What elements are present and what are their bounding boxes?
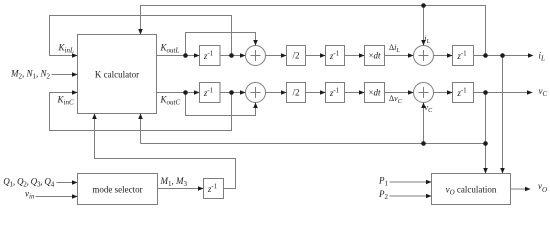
wire iL down to vO calculation: [502, 56, 504, 174]
svg-text:vO calculation: vO calculation: [446, 185, 497, 197]
wire /2L to z2L: [306, 55, 326, 57]
svg-text:iL: iL: [424, 34, 430, 45]
multiplier xdt C box: [365, 83, 385, 103]
summer S1L: [246, 46, 266, 66]
arrowhead vC output: [527, 90, 533, 95]
arrowhead P1 into vO calculation: [426, 180, 432, 185]
svg-text:z-1: z-1: [329, 50, 340, 62]
svg-text:Q1, Q2, Q3, Q4: Q1, Q2, Q3, Q4: [3, 177, 54, 189]
summer S1C: [246, 83, 266, 103]
svg-text:KinC: KinC: [57, 95, 74, 107]
svg-text:ΔvC: ΔvC: [389, 94, 403, 105]
svg-text:KinL: KinL: [58, 43, 74, 55]
junction dot after z3L up: [483, 53, 488, 58]
wire S1C bottom tap: [186, 93, 256, 116]
svg-text:P1: P1: [378, 176, 389, 188]
wire KoutL to z1L: [157, 55, 200, 57]
junction dot line A at S2L branch: [421, 3, 426, 8]
multiplier xdt L box: [365, 46, 385, 66]
wire z1C to S1C: [220, 92, 246, 94]
svg-text:z-1: z-1: [203, 50, 214, 62]
delay z2L box: [326, 46, 345, 66]
wire KinL feedback line B: [50, 16, 232, 56]
divider /2 L box: [287, 46, 306, 66]
arrowhead vC into vO calculation: [483, 168, 488, 174]
arrowhead S1L top: [253, 40, 258, 46]
junction dot after z1C: [229, 90, 234, 95]
junction dot before z1L: [183, 53, 188, 58]
wire Q input: [57, 182, 78, 184]
block mode selector: [78, 174, 158, 205]
divider /2 C box: [287, 83, 306, 103]
svg-text:M2, N1, N2: M2, N1, N2: [10, 69, 51, 81]
delay z3C box: [453, 83, 474, 103]
svg-text:vC: vC: [425, 103, 434, 114]
arrowhead into S1C: [240, 90, 246, 95]
arrowhead vC line into K calculator bottom: [138, 114, 143, 120]
wire xdtC to S2C: [385, 92, 414, 94]
delay z2C box: [326, 83, 345, 103]
wire vC down to vO calculation: [485, 93, 487, 174]
arrowhead vO output: [525, 187, 531, 192]
svg-text:/2: /2: [292, 51, 299, 61]
arrowhead into z1L: [194, 53, 200, 58]
arrowhead P2 into vO calculation: [426, 194, 432, 199]
svg-text:×dt: ×dt: [368, 51, 381, 61]
wire iL feedback top line A: [141, 6, 486, 56]
arrowhead iL into S2L top: [421, 40, 426, 46]
block vO calculation: [432, 174, 511, 205]
wire z2L to xdtL: [345, 55, 365, 57]
wire vC branch into S2C: [423, 103, 425, 144]
summer S2C: [414, 83, 434, 103]
svg-text:M1, M3: M1, M3: [160, 176, 188, 188]
arrowhead into S1L: [240, 53, 246, 58]
arrowhead vin into mode selector: [72, 194, 78, 199]
delay z1C box: [200, 83, 221, 103]
arrowhead KinC into K calculator: [72, 90, 78, 95]
svg-text:KoutC: KoutC: [160, 95, 181, 107]
wire KinC feedback loop: [50, 93, 232, 131]
wire P1 input: [390, 181, 432, 183]
svg-text:ΔiL: ΔiL: [389, 43, 400, 54]
svg-text:vC: vC: [539, 86, 548, 98]
wire S2C to z3C: [434, 92, 453, 94]
junction dot vC line at S2C branch: [421, 141, 426, 146]
arrowhead into z2L: [320, 53, 326, 58]
svg-text:iL: iL: [539, 51, 546, 63]
arrowhead into xdtC: [359, 90, 365, 95]
wire z3L to iL output: [474, 55, 533, 57]
wire z1L to S1L: [220, 55, 246, 57]
arrowhead vC into S2C bottom: [421, 103, 426, 109]
arrowhead into /2L: [281, 53, 287, 58]
svg-text:z-1: z-1: [203, 87, 214, 99]
delay zM box: [204, 179, 224, 199]
arrowhead KinL into K calculator: [72, 53, 78, 58]
arrowhead into z3C: [447, 90, 453, 95]
wire zM feedback to K calculator: [95, 114, 236, 189]
arrowhead mode loop into K calculator bottom: [92, 114, 97, 120]
wire vO output: [511, 188, 531, 190]
svg-text:×dt: ×dt: [368, 88, 381, 98]
wire vin input: [36, 196, 78, 198]
wire vC bottom feedback line: [141, 114, 486, 144]
wire P2 input: [390, 195, 432, 197]
junction dot after z3C: [483, 90, 488, 95]
arrowhead into S2L: [408, 53, 414, 58]
junction dot before z1C: [183, 90, 188, 95]
wire S1L top tap: [186, 33, 256, 56]
junction dot after z1L: [229, 53, 234, 58]
wire S1L to /2L: [266, 55, 287, 57]
wire S2L to z3L: [434, 55, 453, 57]
arrowhead iL into vO calculation: [500, 168, 505, 174]
junction dot after z3L down: [500, 53, 505, 58]
svg-text:P2: P2: [378, 189, 389, 201]
delay z1L box: [200, 46, 221, 66]
block K calculator: [78, 35, 157, 114]
delay z3L box: [453, 46, 474, 66]
wire S1C to /2C: [266, 92, 287, 94]
junction dot vC line at vO branch: [483, 141, 488, 146]
wire KoutC to z1C: [157, 92, 200, 94]
arrowhead M2N1N2 into K calculator: [72, 72, 78, 77]
svg-text:z-1: z-1: [207, 183, 218, 195]
arrowhead into z1C: [194, 90, 200, 95]
arrowhead into S2C: [408, 90, 414, 95]
arrowhead iL output: [528, 53, 534, 58]
wire z3C to vC output: [474, 92, 533, 94]
wire /2C to z2C: [306, 92, 326, 94]
svg-text:vin: vin: [25, 189, 35, 201]
summer S2L: [414, 46, 434, 66]
arrowhead into /2C: [281, 90, 287, 95]
wire mode selector to zM: [158, 188, 204, 190]
arrowhead into z2C: [320, 90, 326, 95]
wire iL branch into S2L: [423, 6, 425, 46]
svg-text:/2: /2: [292, 88, 299, 98]
svg-text:vO: vO: [538, 181, 547, 194]
svg-text:z-1: z-1: [456, 50, 467, 62]
svg-text:mode selector: mode selector: [92, 185, 142, 195]
wire z2C to xdtC: [345, 92, 365, 94]
svg-text:K calculator: K calculator: [95, 70, 139, 80]
arrowhead Q into mode selector: [72, 180, 78, 185]
svg-text:z-1: z-1: [456, 87, 467, 99]
svg-text:z-1: z-1: [329, 87, 340, 99]
svg-text:KoutL: KoutL: [160, 43, 180, 55]
arrowhead into z3L: [447, 53, 453, 58]
arrowhead into xdtL: [359, 53, 365, 58]
arrowhead iL into K calculator top: [138, 29, 143, 35]
arrowhead S1C bottom: [253, 103, 258, 109]
arrowhead into zM: [198, 186, 204, 191]
wire M2N1N2 input: [52, 74, 78, 76]
wire xdtL to S2L: [385, 55, 414, 57]
